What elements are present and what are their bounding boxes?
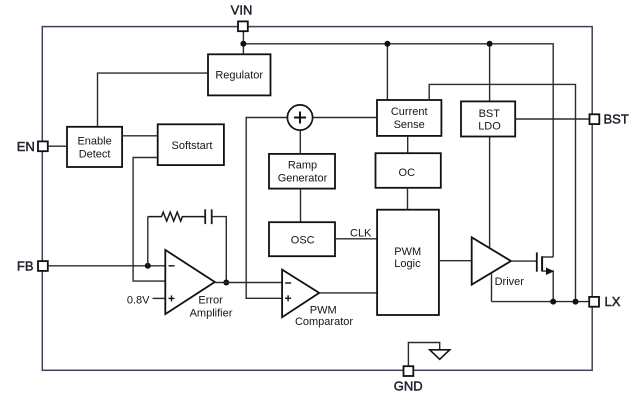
svg-text:0.8V: 0.8V: [127, 295, 150, 307]
svg-text:Generator: Generator: [278, 173, 328, 185]
svg-text:Sense: Sense: [394, 119, 425, 131]
svg-text:BST: BST: [604, 112, 629, 127]
pin GND: [404, 366, 414, 376]
node: sense-LX junction dot: [573, 299, 579, 305]
svg-text:OC: OC: [399, 167, 416, 179]
svg-text:LX: LX: [605, 294, 621, 309]
svg-text:VIN: VIN: [231, 3, 253, 18]
svg-text:Error: Error: [198, 294, 223, 306]
wire: summing node to PWM comparator plus input: [246, 118, 287, 299]
wire: summing node to Current Sense: [313, 117, 377, 119]
svg-text:Driver: Driver: [495, 276, 525, 288]
node: FB feedback junction dot: [145, 263, 151, 269]
node: source-LX junction dot: [550, 299, 556, 305]
block Regulator: [208, 54, 271, 95]
ground: [430, 350, 450, 360]
wire: capacitor to output vertical: [212, 217, 227, 283]
svg-text:Comparator: Comparator: [295, 316, 353, 328]
node: junction dot at BST LDO tap: [487, 41, 493, 47]
wire: OC to PWM Logic: [407, 188, 409, 210]
wire: 0.8V reference to non-inverting input: [153, 297, 166, 299]
capacitor C feedback: [204, 209, 206, 224]
pin EN: [38, 141, 48, 151]
transistor Q1 power MOSFET: [536, 252, 538, 271]
wire: BST LDO bottom to Driver supply: [489, 137, 491, 249]
wire: Current Sense LX sense line: [429, 84, 575, 301]
block Ramp Generator: [269, 154, 335, 189]
svg-text:GND: GND: [394, 378, 423, 393]
wire: Enable Detect to Softstart: [122, 135, 158, 137]
pin VIN: [238, 21, 248, 31]
svg-text:Current: Current: [391, 106, 428, 118]
summing junction: [287, 105, 312, 130]
block OC: [376, 153, 441, 188]
svg-text:OSC: OSC: [291, 235, 315, 247]
op-amp U1 Error Amplifier: [165, 250, 215, 314]
node: junction dot at current sense tap: [384, 41, 390, 47]
node: VIN junction dot: [240, 41, 246, 47]
svg-text:FB: FB: [17, 259, 34, 274]
svg-text:Detect: Detect: [79, 148, 111, 160]
svg-text:Regulator: Regulator: [215, 69, 263, 81]
wire: source to LX: [542, 271, 553, 302]
svg-text:PWM: PWM: [394, 246, 421, 258]
svg-text:Ramp: Ramp: [288, 160, 317, 172]
block Current Sense: [377, 100, 441, 136]
block Enable Detect: [67, 127, 122, 167]
block PWM Logic: [377, 210, 439, 315]
buffer U3 Driver: [472, 237, 511, 284]
wire: PWM Logic to Driver: [439, 260, 472, 262]
wire: drain to VIN rail: [542, 256, 553, 258]
wire: Ramp Generator to OSC: [300, 189, 302, 223]
wire: VIN vertical drop to Regulator: [242, 32, 244, 55]
pin BST: [590, 114, 600, 124]
wire: Regulator left to Enable Detect top: [98, 73, 209, 127]
block BST LDO: [461, 101, 515, 136]
chip boundary border: [42, 27, 592, 371]
pin FB: [38, 261, 48, 271]
svg-text:BST: BST: [479, 108, 501, 120]
wire: feedback loop left vertical: [147, 217, 149, 266]
wire: summing node to Ramp Generator: [299, 130, 301, 154]
svg-text:LDO: LDO: [478, 121, 501, 133]
block OSC: [269, 222, 335, 256]
svg-text:Enable: Enable: [77, 135, 111, 147]
svg-text:PWM: PWM: [310, 305, 337, 317]
wire: OSC clock to PWM Logic: [335, 238, 377, 240]
wire: PWM comparator output to PWM Logic: [319, 292, 377, 294]
wire: LX node: [492, 301, 590, 303]
wire: Driver bottom to LX: [491, 273, 493, 302]
svg-text:Amplifier: Amplifier: [190, 308, 233, 320]
svg-text:EN: EN: [17, 139, 35, 154]
wire: Current Sense to OC: [407, 136, 409, 153]
wire: rail tap to BST LDO top: [489, 44, 491, 102]
wire: VIN rail to right: [243, 44, 553, 257]
wire: BST LDO to BST pin: [515, 118, 590, 120]
wire: Softstart down to error amplifier softstart input: [133, 158, 165, 282]
block Softstart: [158, 124, 224, 165]
wire: GND pin to ground symbol: [408, 343, 439, 366]
op-amp U2 PWM Comparator: [282, 270, 319, 318]
arrow on source: [546, 268, 554, 276]
svg-text:Softstart: Softstart: [172, 140, 213, 152]
node: feedback-output junction dot: [223, 280, 229, 286]
wire: FB to error amplifier inverting input: [49, 265, 166, 267]
svg-text:Logic: Logic: [394, 258, 421, 270]
pin LX: [589, 297, 599, 307]
wire: EN pin to Enable Detect: [49, 145, 67, 147]
wire: Driver output to gate: [511, 260, 536, 262]
wire: error amp output to PWM comparator: [215, 282, 282, 284]
svg-text:CLK: CLK: [350, 227, 372, 239]
wire: rail tap to Current Sense top: [386, 44, 388, 100]
resistor R feedback: [148, 212, 205, 221]
